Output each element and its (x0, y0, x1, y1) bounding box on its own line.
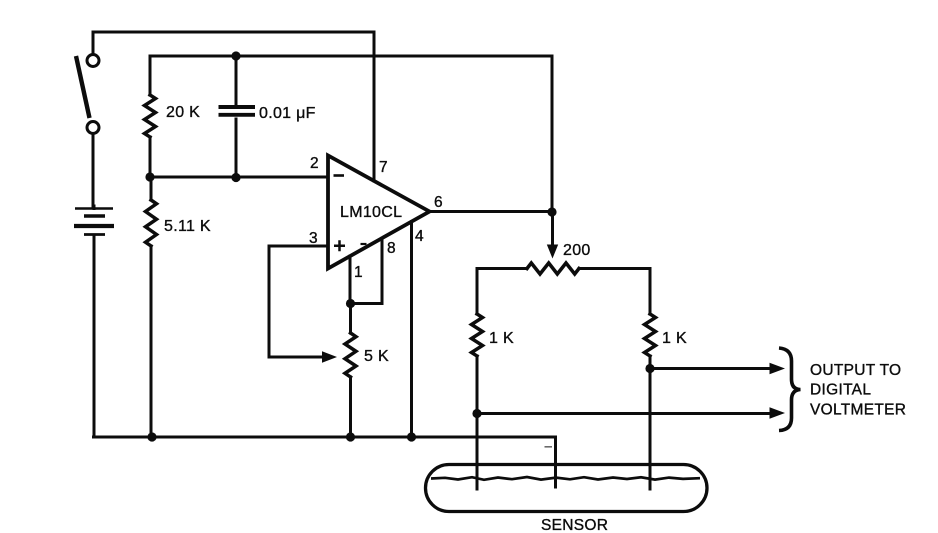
wire 20K top lead (149, 56, 152, 95)
battery B1 (74, 209, 114, 235)
svg-text:OUTPUT TO: OUTPUT TO (810, 362, 901, 379)
svg-text:LM10CL: LM10CL (340, 204, 402, 221)
svg-text:3: 3 (309, 230, 318, 247)
wire 20K bottom lead (149, 137, 152, 177)
wire pin 6 output (430, 210, 553, 213)
op-amp U1 LM10CL (328, 156, 430, 269)
node 5.11K bottom (147, 432, 156, 441)
node output junction (547, 207, 556, 216)
wire pin 1 (349, 256, 352, 303)
wire pin 8 (350, 238, 382, 303)
capacitor C1 0.01uF (219, 56, 256, 177)
minus sign reference (361, 243, 367, 245)
wire pin 2 net (150, 176, 328, 179)
svg-text:SENSOR: SENSOR (541, 517, 608, 533)
wire switch stem top (92, 32, 95, 54)
plus sign pin 3 input (334, 240, 345, 251)
wire 5.11K bottom lead (150, 246, 153, 437)
brace output (779, 348, 801, 431)
node output2 junction (472, 409, 481, 418)
svg-text:6: 6 (434, 194, 443, 211)
resistor 1K left (472, 314, 483, 356)
arrowhead output 1 (770, 363, 786, 375)
svg-text:1 K: 1 K (662, 330, 687, 347)
svg-text:200: 200 (563, 242, 591, 259)
wire 200 left lead (477, 269, 527, 315)
wire pin 3 feedback loop (269, 246, 328, 357)
wire stub artifact (545, 446, 553, 448)
minus sign pin 2 input (334, 174, 345, 177)
wire top rail (93, 31, 374, 34)
wire 5.11K top lead (150, 177, 153, 200)
potentiometer 200 (527, 263, 579, 274)
node 5K bottom (346, 432, 355, 441)
arrowhead output 2 (770, 407, 786, 419)
node cap top (231, 51, 240, 60)
wire 5K top lead (349, 304, 352, 334)
svg-text:5 K: 5 K (364, 348, 389, 365)
wire output line 1 (650, 367, 771, 370)
resistor 1K right (645, 314, 656, 356)
wire 200 wiper (551, 212, 554, 246)
wire bottom rail (94, 437, 556, 487)
arrowhead 200 wiper (547, 245, 558, 259)
node pin 4 bottom (407, 432, 416, 441)
potentiometer 5K (345, 333, 356, 377)
svg-text:2: 2 (310, 155, 319, 172)
wire 1K left bottom lead (476, 356, 479, 489)
svg-text:5.11 K: 5.11 K (164, 218, 211, 235)
svg-text:4: 4 (415, 228, 424, 245)
sensor body (426, 465, 708, 512)
svg-text:8: 8 (387, 240, 396, 257)
wire 1K right bottom lead (649, 356, 652, 489)
node pin1 pin8 junction (346, 299, 355, 308)
resistor 5.11K (146, 200, 157, 246)
wire second rail (150, 55, 552, 58)
svg-text:7: 7 (379, 159, 388, 176)
node 20K / 5.11K junction (145, 172, 154, 181)
svg-text:1: 1 (354, 264, 363, 281)
label output to digital voltmeter (810, 362, 906, 419)
wire pin 7 (373, 32, 376, 181)
wire switch to battery (92, 134, 95, 206)
svg-text:0.01 μF: 0.01 μF (259, 105, 316, 122)
wire 5K bottom lead (349, 377, 352, 437)
wire battery to bottom rail (93, 206, 96, 437)
svg-text:1 K: 1 K (489, 330, 514, 347)
svg-text:DIGITAL: DIGITAL (810, 382, 871, 399)
svg-text:20 K: 20 K (166, 104, 200, 121)
svg-text:VOLTMETER: VOLTMETER (810, 402, 906, 419)
arrowhead 5K wiper (322, 351, 337, 363)
node cap bottom junction (231, 173, 240, 182)
wire pin 4 (410, 222, 413, 437)
wire supply down right (551, 56, 554, 212)
switch S1 (76, 55, 99, 134)
resistor 20K (145, 95, 156, 137)
node output1 junction (645, 364, 654, 373)
wire output line 2 (477, 412, 771, 415)
wire 200 right lead (579, 269, 650, 315)
